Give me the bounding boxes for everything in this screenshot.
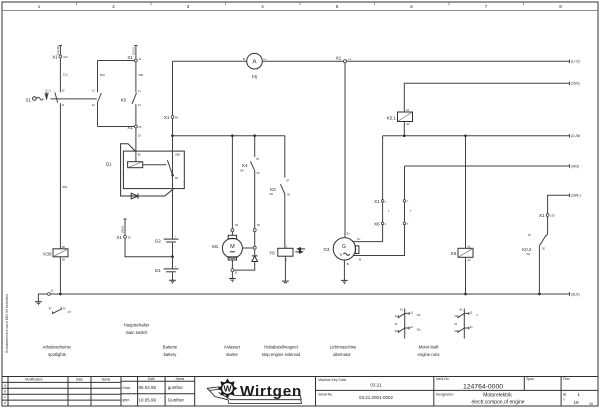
revision table texts (4, 377, 184, 405)
contact K5 (121, 62, 144, 125)
svg-text:X1: X1 (374, 199, 380, 204)
svg-text:main switch: main switch (126, 330, 149, 335)
svg-text:501: 501 (62, 185, 67, 189)
contact mirror K5 (454, 307, 478, 338)
terminal X1 (130) (539, 213, 555, 218)
column strip line (2, 10, 598, 12)
svg-text:-: - (175, 245, 176, 248)
terminal X1 (L+) (336, 55, 352, 62)
svg-text:130: 130 (550, 213, 555, 217)
S1 second pole (21/22) (92, 61, 105, 127)
svg-text:L+: L+ (264, 57, 267, 61)
svg-text:500: 500 (138, 73, 143, 77)
alternator G3 (323, 232, 361, 266)
svg-text:Motorelektrik: Motorelektrik (483, 393, 512, 399)
contact K0 (269, 178, 290, 248)
svg-text:/27: /27 (68, 310, 72, 314)
svg-text:0 1 2: 0 1 2 (45, 89, 51, 93)
Wirtgen logo swoosh (207, 387, 302, 404)
svg-text:b: b (4, 389, 6, 393)
wire D+ branch (353, 222, 382, 242)
svg-text:battery: battery (164, 352, 178, 357)
svg-text:(D-/3b: (D-/3b (571, 134, 580, 138)
wire bus to K4 (254, 136, 256, 157)
svg-text:06.04.95: 06.04.95 (139, 385, 157, 390)
svg-text:B-: B- (347, 262, 350, 266)
function labels bottom (42, 323, 439, 358)
ammeter P5 (243, 53, 267, 79)
svg-text:123: 123 (63, 55, 68, 59)
battery G1 (155, 257, 179, 278)
TITLEBLOCK (2, 377, 598, 407)
svg-text:K0.2: K0.2 (522, 247, 532, 252)
wire T between terminals (405, 202, 412, 222)
wire (28/6.1) (548, 194, 582, 214)
wire 501 down to K30 (60, 103, 67, 249)
svg-text:Arbeitsscheinw.: Arbeitsscheinw. (42, 345, 71, 350)
terminal 31 starter bottom (231, 269, 238, 275)
ground below G3 (341, 260, 348, 284)
solenoid Y0 (269, 245, 305, 262)
svg-text:B+: B+ (347, 232, 351, 236)
svg-text:(504): (504) (120, 226, 124, 233)
svg-text:alternator: alternator (333, 352, 351, 357)
svg-text:(L+/2): (L+/2) (571, 59, 580, 63)
svg-text:Hubabstellmagnet: Hubabstellmagnet (264, 345, 299, 350)
svg-text:X1: X1 (164, 115, 170, 120)
terminal X1 (B+) (164, 115, 179, 120)
svg-text:10.05.99: 10.05.99 (139, 398, 157, 403)
Wirtgen logo cog (218, 378, 238, 398)
link motor to diode branch (242, 248, 254, 256)
K30 contact mirror (49, 307, 72, 315)
wire T up to W line (404, 166, 406, 200)
svg-text:Hauptschalter: Hauptschalter (124, 323, 150, 328)
bottom ground line 31 (50, 292, 579, 296)
wire stub (15/2) (131, 46, 137, 60)
terminal X1 (123) top-left (52, 55, 68, 60)
terminal X1 (20) (127, 125, 141, 130)
svg-text:121: 121 (63, 73, 68, 77)
wire 121 (60, 58, 68, 92)
wire c between terminals (383, 202, 390, 222)
svg-text:Lichtmaschine: Lichtmaschine (330, 345, 357, 350)
svg-text:M1: M1 (212, 244, 219, 249)
svg-text:G3: G3 (323, 247, 330, 252)
main vertical feed wire (172, 61, 174, 136)
wire bus to M1 (231, 136, 233, 229)
svg-text:K5.1: K5.1 (387, 116, 397, 121)
svg-text:/62: /62 (526, 252, 530, 256)
terminal X1 top (K5 branch) (127, 55, 141, 62)
svg-text:G: G (342, 244, 346, 250)
wire c up to bus (382, 136, 384, 200)
right bus (D-) (383, 134, 581, 138)
Q1 contact (143, 153, 181, 180)
svg-text:v.: v. (563, 398, 565, 402)
top feed line to P5 (173, 60, 247, 62)
svg-text:Plan: Plan (563, 377, 570, 381)
contact K0.2 (522, 216, 547, 294)
svg-text:Name: Name (102, 378, 111, 382)
svg-text:-: - (175, 275, 176, 278)
svg-text:Y0: Y0 (269, 250, 275, 255)
svg-text:/52: /52 (269, 192, 273, 196)
svg-text:A2: A2 (467, 258, 471, 262)
wire (25/3) to K5.1 (404, 82, 579, 113)
svg-text:Serial-No.: Serial-No. (318, 392, 333, 396)
diode at starter (234, 256, 258, 270)
Q1 coil (128, 153, 143, 168)
svg-text:X6: X6 (374, 222, 380, 227)
svg-text:A1: A1 (400, 307, 404, 311)
svg-text:D+: D+ (357, 237, 361, 241)
main switch Q1 enclosure (106, 144, 185, 196)
svg-text:starter: starter (226, 352, 238, 357)
svg-text:X1: X1 (539, 213, 545, 218)
svg-text:B-: B- (243, 57, 246, 61)
svg-text:K4: K4 (242, 163, 248, 168)
svg-text:M: M (230, 244, 235, 250)
S1 mechanical link (51, 98, 97, 100)
ground below M1 (229, 272, 236, 282)
Q1 wire through (172, 136, 174, 239)
svg-text:X1: X1 (127, 125, 133, 130)
svg-text:(31/2): (31/2) (571, 292, 580, 296)
svg-text:502: 502 (100, 73, 105, 77)
svg-text:Bl.: Bl. (563, 392, 567, 396)
svg-text:B+: B+ (175, 115, 179, 119)
svg-text:P5: P5 (252, 75, 258, 80)
svg-text:Machine Key Code: Machine Key Code (318, 378, 346, 382)
svg-text:gepr.: gepr. (123, 398, 131, 402)
terminal X6 (c) (374, 222, 387, 227)
starter motor M1 (212, 232, 242, 269)
wire X1(L+) down to alternator (344, 63, 346, 237)
svg-text:K0: K0 (270, 187, 276, 192)
terminal X1 (c) (374, 199, 387, 204)
svg-text:W: W (223, 384, 232, 394)
svg-text:03.21: 03.21 (370, 383, 382, 388)
svg-text:Spos.: Spos. (526, 377, 535, 381)
svg-text:A2: A2 (406, 122, 410, 126)
ground below G1 (169, 273, 176, 284)
diode in Q1 (131, 193, 138, 199)
svg-text:A: A (252, 60, 256, 66)
relay coil K5 (451, 136, 473, 294)
svg-text:Date: Date (76, 378, 83, 382)
terminal 50 (253, 223, 260, 232)
wire K30 to ground line (59, 257, 61, 294)
terminal X6 (T) (403, 222, 409, 226)
terminal X1 (30) mid battery (116, 235, 131, 240)
svg-text:Schutzvermerk nach DIN 34 beac: Schutzvermerk nach DIN 34 beachten (5, 294, 9, 353)
svg-text:19: 19 (574, 400, 580, 405)
battery junction (171, 255, 174, 258)
wire 20 to Q1 coil (136, 128, 141, 162)
terminal 30 starter (231, 223, 239, 232)
svg-text:Bl.: Bl. (590, 402, 594, 406)
svg-text:Name: Name (176, 377, 185, 381)
svg-text:Designation: Designation (436, 393, 454, 397)
wire W line to right edge (405, 164, 580, 168)
wire K5.1 to bus (403, 122, 405, 136)
left bus (171, 134, 285, 137)
svg-text:K30: K30 (43, 251, 52, 256)
svg-text:Modification: Modification (25, 378, 43, 382)
relay coil K5.1 (387, 108, 413, 126)
svg-text:124764-0000: 124764-0000 (463, 383, 503, 390)
svg-text:Wirtgen: Wirtgen (240, 383, 301, 400)
wire link top between poles (98, 60, 135, 62)
svg-text:(W/3): (W/3) (571, 164, 579, 168)
wire to right edge (L+/2) (347, 59, 580, 63)
svg-text:L+: L+ (348, 57, 351, 61)
svg-text:X1: X1 (336, 55, 342, 60)
svg-text:G2: G2 (155, 239, 162, 244)
svg-text:86A: 86A (175, 153, 180, 157)
svg-text:a: a (4, 383, 6, 387)
contact mirror K5.1 (395, 307, 421, 338)
contact K4 (240, 157, 260, 229)
wire P5 to X1 (262, 60, 343, 62)
svg-text:electr.compon.of engine: electr.compon.of engine (471, 399, 524, 405)
svg-text:X1: X1 (127, 55, 133, 60)
svg-text:X1: X1 (116, 235, 122, 240)
svg-text:d: d (4, 401, 6, 405)
svg-text:Gunther: Gunther (168, 398, 185, 403)
wire stub top-left (12/45) (56, 46, 62, 56)
svg-text:A1: A1 (406, 108, 410, 112)
svg-text:K5: K5 (121, 98, 127, 103)
svg-text:(25/3): (25/3) (571, 82, 580, 86)
svg-text:/5a: /5a (417, 328, 421, 332)
wire bus to K0 (284, 136, 286, 178)
svg-text:/52: /52 (417, 313, 421, 317)
svg-text:(28/6.1: (28/6.1 (571, 194, 581, 198)
svg-text:Drwn.: Drwn. (123, 386, 132, 390)
svg-text:spotlights: spotlights (48, 352, 66, 357)
terminal starter aux (253, 246, 256, 249)
svg-text:stop engine solenoid: stop engine solenoid (262, 352, 301, 357)
svg-text:gunther: gunther (168, 385, 184, 390)
terminal circle 13 bottom-left (48, 289, 54, 296)
wire X1 to battery midpoint (125, 238, 171, 257)
svg-text:A1: A1 (459, 307, 463, 311)
wire stub (504) (120, 219, 126, 235)
svg-text:G1: G1 (155, 268, 162, 273)
switch S1 key switch (25, 89, 65, 108)
battery G2 (155, 236, 179, 257)
wire W branch (354, 225, 405, 256)
title block grid (2, 377, 598, 407)
svg-text:/54: /54 (240, 169, 244, 173)
svg-text:Motor läuft: Motor läuft (419, 345, 440, 350)
svg-text:K5: K5 (451, 251, 457, 256)
svg-text:Date: Date (148, 377, 155, 381)
svg-text:X1: X1 (52, 55, 58, 60)
svg-text:S1: S1 (25, 98, 31, 103)
terminal X1 (T) (403, 200, 409, 204)
svg-text:03.21.0001-0002: 03.21.0001-0002 (359, 395, 394, 400)
svg-text:engine runs: engine runs (418, 352, 440, 357)
ground stub bottom-left (35, 294, 48, 305)
relay coil K30 (43, 245, 68, 262)
column ticks (77, 2, 524, 5)
svg-text:Ident-No.: Ident-No. (436, 377, 450, 381)
svg-text:A1: A1 (467, 244, 471, 248)
svg-text:Batterie: Batterie (163, 345, 178, 350)
wire K4 to starter solenoid terminal (254, 232, 256, 247)
svg-text:Q1: Q1 (106, 162, 113, 167)
wire link bottom to X1 20 (98, 126, 135, 128)
ground below Y0 (282, 256, 289, 283)
svg-text:Anlasser: Anlasser (224, 345, 241, 350)
